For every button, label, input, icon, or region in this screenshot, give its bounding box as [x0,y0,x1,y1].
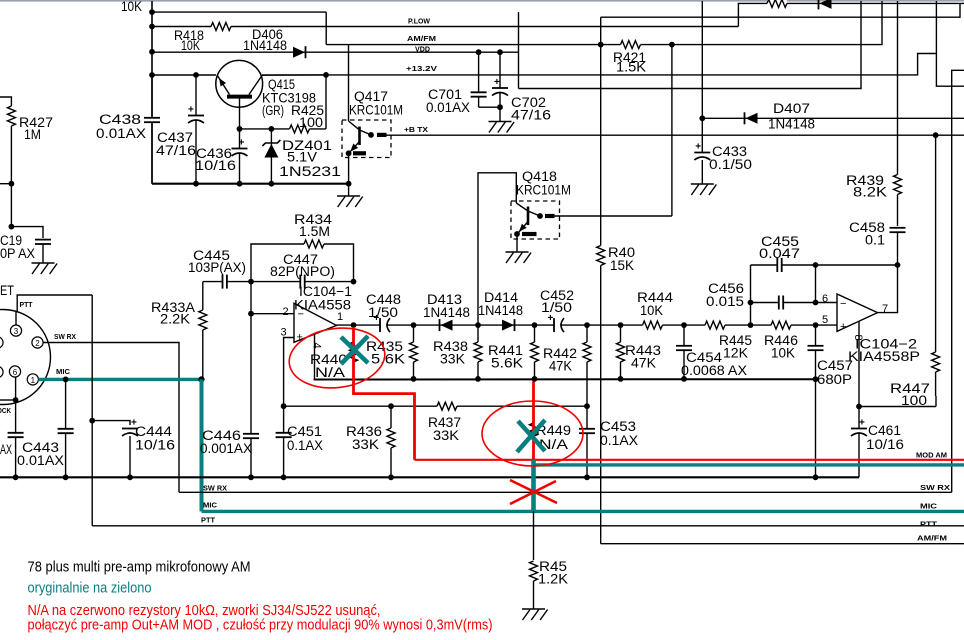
svg-text:KRC101M: KRC101M [516,183,571,198]
svg-text:ET: ET [0,282,14,298]
op-amp IC104-1 KIA4558 [294,303,337,343]
svg-text:1N4148: 1N4148 [768,117,815,132]
node rail/R438 [475,376,481,382]
wire C455 left riser [750,265,752,325]
node bus2/C443 [63,474,69,480]
node signal/Q418 branch [475,322,481,328]
resistor on top segment [767,0,787,9]
wire C456 line y=302.5 [751,302,838,304]
svg-text:1N5231: 1N5231 [279,164,341,179]
node base/C437 [193,72,199,78]
svg-text:0.001AX: 0.001AX [200,441,252,456]
svg-text:5.6K: 5.6K [371,352,405,367]
node bus/DZ401 [269,181,275,187]
svg-text:1M: 1M [24,127,41,142]
resistor R438 [477,325,479,379]
node C445/C447 [248,279,254,285]
wire vertical x=702 [701,1,703,152]
wire C437 branch [195,75,197,184]
svg-text:1/50: 1/50 [541,300,572,315]
svg-text:PTT: PTT [20,300,33,309]
capacitor C457 [815,325,817,379]
svg-text:+: + [188,105,194,116]
svg-text:4: 4 [311,343,323,349]
resistor R45 [533,511,535,560]
connector pin 2 [32,337,43,348]
node C447/feedback [351,279,357,285]
svg-text:D407: D407 [773,101,810,116]
wire MIC teal from pin1 [38,378,201,381]
capacitor C458 [896,228,900,232]
svg-text:82P(NPO): 82P(NPO) [270,264,335,279]
svg-text:KRC101M: KRC101M [349,103,403,118]
wire SW RX from pin2 [43,343,179,493]
wire Q418 emitter [516,234,518,252]
capacitor C436 [237,149,242,153]
wire C445 line y=282 [203,281,354,283]
zener diode DZ401 [270,129,272,184]
transistor Q415 KTC3198 [216,60,263,107]
resistor R40 [595,246,606,266]
resistor R449 (N/A) [528,423,539,443]
svg-text:C453: C453 [600,419,636,434]
svg-text:+13.2V: +13.2V [406,64,437,73]
svg-text:N/A: N/A [315,365,345,380]
resistor R425 [290,123,310,134]
ground (C433) [691,183,714,185]
wire Y12 line [152,11,326,13]
svg-text:2: 2 [35,339,40,348]
svg-text:5.6K: 5.6K [491,356,523,371]
wire teal riser x=533 [531,460,536,512]
ground (C19) [32,262,55,264]
resistor R446 [771,320,791,331]
capacitor C456 [779,301,783,304]
wire base line [152,74,216,76]
svg-text:MIC: MIC [56,367,71,376]
svg-text:33K: 33K [440,352,465,367]
node MIC/C443 [63,377,69,383]
svg-text:5: 5 [822,314,828,326]
svg-text:0P AX: 0P AX [0,246,35,261]
svg-text:8.2K: 8.2K [853,185,887,200]
svg-text:3: 3 [281,327,287,339]
svg-text:5.1V: 5.1V [287,150,317,165]
wire pin8 drop [858,322,860,407]
node AM/FM x672 [669,42,675,48]
wire P.LOW riser and top segment [738,3,964,26]
node signal/R442 [584,322,590,328]
svg-text:47K: 47K [549,359,572,374]
node bus/base line [149,72,155,78]
node bus/Y12 [149,9,155,15]
wire Q417 base from AM/FM [348,45,350,121]
svg-text:0.015: 0.015 [706,294,744,309]
resistor R418 [211,21,231,32]
svg-text:100: 100 [901,393,927,408]
svg-text:0.01AX: 0.01AX [96,126,146,141]
node rail/R435 [411,376,417,382]
wire rail drop x=815 [815,379,817,477]
svg-text:MIC: MIC [203,501,218,510]
node bias/pin3 [281,403,287,409]
svg-text:1: 1 [31,376,36,385]
connector pin 1 [27,374,38,385]
svg-text:47/16: 47/16 [156,143,196,158]
connector pin 6 [9,366,20,377]
svg-text:0.1: 0.1 [865,233,885,248]
scan border top [0,0,964,2]
wire +B TX line [387,134,964,136]
resistor R447 [935,135,937,396]
node pin6/C456 [813,300,819,306]
svg-text:SW RX: SW RX [920,483,950,492]
node rail/C454 [681,376,687,382]
wire C438 branch [151,75,153,184]
wire C444 branch [92,421,130,425]
svg-text:0.1/50: 0.1/50 [709,157,752,172]
node bus2/C446 [248,474,254,480]
svg-text:1N4148: 1N4148 [423,305,470,320]
wire R447 bottom line [859,406,936,408]
node bus/C436 [237,181,243,187]
red ellipse around R449 [482,401,583,466]
ground (bus) [348,184,350,196]
node bus/VDD [149,49,155,55]
wire output to feedback [878,265,898,313]
wire Q418 base from signal node [478,173,516,325]
svg-text:47/16: 47/16 [511,108,551,123]
connector pin 4 partial [0,366,3,377]
svg-text:+: + [695,142,701,153]
connector pin 3 [10,325,21,336]
node x702/D407 [699,115,705,121]
svg-text:C451: C451 [287,424,322,439]
svg-text:100: 100 [299,115,323,130]
node signal/R441 [532,322,538,328]
capacitor C451 [283,406,285,477]
capacitor C454 [683,325,685,379]
resistor R441 [534,325,536,379]
teal X over R449 [517,420,545,452]
svg-text:PTT: PTT [920,520,938,529]
wire pin3 line [284,338,295,407]
wire Q418 collector line [555,215,672,217]
wire bottom rail y=379 [314,378,816,380]
svg-text:P.LOW: P.LOW [408,17,430,26]
capacitor C455 [777,263,781,266]
node signal/R435 [411,322,417,328]
ground (R45) [522,608,545,610]
wire left input y=97 [0,97,11,106]
svg-text:1.5M: 1.5M [299,224,330,239]
wire VDD line [152,51,519,53]
wire right edge Z x=951 [952,70,964,492]
svg-text:+: + [840,321,846,333]
resistor R445 [705,320,725,331]
resistor R433A [202,282,204,378]
wire bus left stub [0,183,11,185]
node rail/R443 [618,376,624,382]
svg-text:10K: 10K [640,303,663,318]
wire lock stub [0,399,16,401]
svg-text:(GR): (GR) [262,103,284,118]
svg-text:103P(AX): 103P(AX) [188,260,246,275]
wire red strap R449 column [532,382,535,461]
wire PTT bus [92,525,964,527]
wire R434 feedback loop [251,244,354,282]
svg-text:MOD AM: MOD AM [916,451,947,460]
svg-text:OCK: OCK [0,406,12,415]
wire AM/FM line [326,1,882,45]
node bus/P.LOW [149,24,155,30]
svg-text:0.01AX: 0.01AX [426,100,470,115]
svg-text:2.2K: 2.2K [160,312,190,327]
capacitor C702 [499,52,501,121]
wire base lead [239,107,241,129]
node C458/C455 line [895,262,901,268]
ground (Q418) [506,251,529,253]
node bias/R436 [388,403,394,409]
wire pin6 down [15,377,17,477]
svg-text:2: 2 [283,306,289,318]
wire +13.2V line [262,54,936,75]
wire collector to +13.2V [262,74,326,76]
wire D407 line [702,117,964,119]
transistor Q417 KRC101M [342,120,391,158]
wire R425 riser [325,75,327,129]
wire power bus vertical x=152 [151,1,153,184]
resistor R439 [897,173,899,226]
diode on top segment [818,0,820,9]
wire C455 line y=265 [751,264,898,266]
wire PTT box right edge [91,295,93,526]
node bias/C453 [584,403,590,409]
svg-text:3: 3 [14,327,19,336]
node VDD/C701 [476,49,482,55]
wire MIC teal bus [202,510,964,513]
wire AM/FM bus [601,543,964,545]
node rail/R441 [532,376,538,382]
svg-text:0.1AX: 0.1AX [600,433,638,448]
capacitor C461 [858,407,860,478]
svg-text:oryginalnie na zielono: oryginalnie na zielono [28,581,152,597]
node C456 left [748,300,754,306]
svg-text:KIA4558: KIA4558 [294,298,351,313]
capacitor C444 [128,429,133,433]
svg-text:12K: 12K [723,346,748,361]
node bus/C437 [193,181,199,187]
connector pin 5 partial [0,337,3,348]
svg-text:0.0068 AX: 0.0068 AX [681,363,747,378]
svg-text:1N4148: 1N4148 [243,38,287,53]
capacitor C433 [700,153,705,157]
svg-text:C438: C438 [99,112,141,127]
node +B TX/R447 [933,132,939,138]
node output/R440 [351,322,357,328]
wire vertical x=897 upper [897,1,899,173]
resistor R434 [304,239,324,250]
svg-text:1.2K: 1.2K [538,572,568,587]
svg-text:C461: C461 [868,423,901,438]
wire bias line y=406 [284,405,587,407]
node rail/C457 [813,376,819,382]
svg-text:AM/FM: AM/FM [407,34,436,43]
resistor R427 [6,106,17,126]
wire MOD AM red line [415,459,964,461]
node inverting input [248,311,254,317]
svg-text:SW RX: SW RX [203,484,227,493]
wire ground bus y=184 [152,183,349,185]
wire C436 branch [239,129,241,184]
resistor R444 [643,320,663,331]
capacitor C445 [223,280,227,283]
node zener top [269,126,275,132]
node bus2/R436 [388,474,394,480]
svg-text:10/16: 10/16 [195,158,236,173]
node collector/+13.2V [323,72,329,78]
node signal/C455 branch [748,322,754,328]
wire vertical x=936 upper [936,1,964,86]
capacitor C452 [555,324,560,327]
diode D407 [744,112,746,124]
wire output stub [337,324,354,326]
capacitor C446 [250,314,252,478]
svg-text:VDD: VDD [415,45,430,54]
PTT box [17,295,92,312]
wire x=326 Y12-to-AM/FM [325,12,327,45]
ground (C702) [489,121,512,123]
wire long vertical x=601 [600,17,602,544]
svg-text:+: + [239,138,245,149]
resistor R442 [586,325,588,406]
svg-text:1.5K: 1.5K [616,60,646,75]
wire pin3 to box [15,312,17,325]
node base/zener line [237,126,243,132]
svg-text:0.047: 0.047 [759,246,800,261]
svg-text:AM/FM: AM/FM [917,534,947,543]
transistor Q418 KRC101M [511,201,560,239]
node MIC/R433A [198,376,204,382]
svg-text:33K: 33K [433,428,459,443]
svg-text:połączyć pre-amp Out+AM MOD ,: połączyć pre-amp Out+AM MOD , czułość pr… [28,618,493,634]
svg-text:+B TX: +B TX [404,125,428,134]
node pin8/R447 line [856,404,862,410]
svg-text:10/16: 10/16 [866,437,904,452]
node signal/C457 [813,322,819,328]
node signal/C454 [681,322,687,328]
capacitor C438 [150,118,154,122]
wire MIC teal riser [200,379,204,511]
node bus2/pin6cap [13,474,19,480]
svg-text:6: 6 [822,293,828,305]
op-amp IC104-2 KIA4558P [837,294,878,333]
node C702 bottom [497,104,503,110]
wire pin2 line [251,313,295,315]
wire AM/FM riser x=672 [671,45,673,216]
svg-text:AX: AX [0,442,12,457]
mic connector circle [0,310,51,405]
resistor R437 [437,401,457,412]
node C455/pin6 riser [813,262,819,268]
svg-text:+: + [859,418,865,429]
svg-text:SW RX: SW RX [54,332,76,341]
svg-text:6: 6 [13,368,18,377]
diode D413 [439,319,441,331]
diode D414 [502,320,514,331]
node VDD/C702 [497,49,503,55]
wire R447 corner [935,396,937,407]
wire P.LOW line [152,26,738,28]
wire zener line [240,128,327,130]
wire Q417 emitter down [348,153,350,183]
svg-text:15K: 15K [610,258,634,273]
svg-text:680P: 680P [817,372,852,387]
node R427/left bus [9,181,15,187]
svg-text:47K: 47K [631,356,656,371]
svg-text:MIC: MIC [920,502,938,511]
capacitor C447 [300,280,304,283]
teal X over R440 [341,336,368,364]
wire red strap from preamp out [354,327,415,460]
svg-text:−: − [840,298,846,310]
wire C19 branch [11,227,43,238]
svg-text:10K: 10K [771,346,795,361]
wire pin4 down [315,334,354,380]
node R427/C19 [9,224,15,230]
wire Y88 line [519,1,862,89]
svg-text:1/50: 1/50 [368,305,398,320]
red X over SW RX junction [510,480,557,504]
svg-text:10K: 10K [181,38,200,53]
node bus2/C451 [281,474,287,480]
svg-text:10/16: 10/16 [135,438,175,453]
wire inverting branch x=251 [250,282,252,314]
capacitor C453 [586,406,588,477]
resistor R435 [413,325,415,379]
capacitor C437 [194,116,199,120]
node AM/FM x601 [598,42,604,48]
node pin6/lock [13,397,19,403]
wire teal AM-mod feed y=465 [534,463,964,466]
node bus2/C453 [584,474,590,480]
node bus/Q417 emitter [346,181,352,187]
resistor R440 (N/A) [353,325,355,379]
wire SW RX bus [179,491,952,493]
resistor R421 [621,39,641,50]
wire ground bus y=477 [0,476,859,478]
wire x=518 jog [518,12,520,88]
wire C701-C702 link [479,106,500,108]
capacitor C19 [41,240,45,244]
svg-text:0.01AX: 0.01AX [17,453,64,468]
node rail drop/bus [813,474,819,480]
wire pin6 riser [815,265,817,303]
svg-text:0.1AX: 0.1AX [287,438,323,453]
capacitor C448 [381,324,386,327]
svg-text:1N4148: 1N4148 [478,303,523,318]
diode D406 [293,47,305,58]
wire Y17 line [601,3,960,17]
node PTT/C444 [89,418,95,424]
capacitor C443 [65,379,67,477]
capacitor (label cut) [14,433,18,437]
svg-text:PTT: PTT [201,516,216,525]
svg-text:10K: 10K [121,0,142,14]
node signal/R443 [618,322,624,328]
resistor R436 [390,406,392,477]
node bus2/C444 [127,474,133,480]
